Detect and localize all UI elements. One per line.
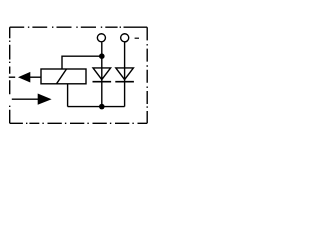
node A (junction dot on X1 branch): [99, 53, 105, 59]
enclosure border top edge (dash-dot): [10, 26, 148, 28]
enclosure border right edge (dash-dot): [146, 27, 148, 123]
wire: input lead of arrow A2: [12, 98, 38, 100]
wire: junction node to converter top: [62, 56, 102, 69]
wire: terminal X1 down through diode D1 to bottom rail: [101, 42, 103, 106]
terminal X1 (positive output circle): [97, 34, 105, 42]
enclosure border bottom edge (dash-dot): [10, 122, 148, 124]
diode D2 (triangle, cathode down): [116, 68, 134, 80]
label - (minus sign at terminal X2): [135, 37, 139, 39]
diode D1 cathode bar: [93, 81, 112, 83]
diode D2 cathode bar: [115, 81, 134, 83]
arrow A1 (left-pointing signal arrow): [18, 72, 30, 83]
node B (junction dot on bottom rail): [99, 104, 105, 110]
diode D1 (triangle, cathode down): [93, 68, 111, 80]
wire stub at left border for arrow A1: [9, 76, 15, 78]
wire: converter left lead: [30, 76, 42, 78]
terminal X2 (negative output circle): [121, 34, 129, 42]
converter U1 diagonal slash: [57, 69, 67, 84]
arrow A2 (right-pointing signal arrow): [38, 94, 52, 105]
converter U1 (rectangle body): [41, 69, 86, 84]
wire: bottom rail: [68, 106, 125, 108]
enclosure border left edge (dash-dot): [9, 27, 11, 123]
wire: terminal X2 down through diode D2 to bottom rail: [124, 42, 126, 106]
wire: converter bottom lead to bottom rail: [67, 84, 69, 107]
